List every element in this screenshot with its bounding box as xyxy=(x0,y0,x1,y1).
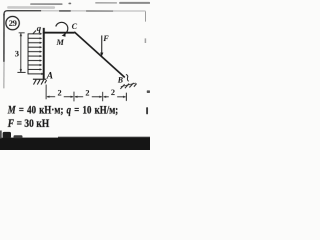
dimension line 3 (vertical) xyxy=(20,33,22,72)
dimension line segments 2-2-2 xyxy=(47,96,126,98)
svg-text:2: 2 xyxy=(111,88,115,97)
distributed load q envelope line xyxy=(27,33,29,74)
bottom scan band xyxy=(0,138,150,150)
frame top border with rounded corner xyxy=(7,6,55,9)
support A hatching xyxy=(33,80,46,85)
svg-text:F = 30 кН: F = 30 кН xyxy=(7,116,50,130)
support A ground line xyxy=(33,78,46,80)
scan streak top-right xyxy=(95,2,117,4)
svg-text:q: q xyxy=(37,23,42,33)
svg-text:A: A xyxy=(46,71,53,81)
scan dot top-middle xyxy=(68,3,71,5)
svg-text:2: 2 xyxy=(85,88,89,97)
svg-text:M = 40 кН·м; q = 10 кН/м;: M = 40 кН·м; q = 10 кН/м; xyxy=(7,102,118,116)
problem number circle 29 xyxy=(6,16,19,29)
distributed load arrows xyxy=(28,33,44,75)
svg-text:C: C xyxy=(72,22,78,31)
svg-text:3: 3 xyxy=(15,48,20,58)
extension tick at B xyxy=(125,93,127,101)
extension line below A xyxy=(45,85,47,100)
svg-text:B: B xyxy=(117,76,123,85)
frame left border xyxy=(3,14,5,62)
support B hatching xyxy=(120,83,136,89)
force F arrow xyxy=(101,35,103,53)
inclined member C to B xyxy=(74,32,125,78)
svg-text:2: 2 xyxy=(57,89,61,98)
scan streak top-left xyxy=(30,3,63,5)
svg-text:29: 29 xyxy=(9,18,17,28)
top horizontal member to C xyxy=(43,32,75,34)
scan mark right edge lower xyxy=(146,107,148,114)
svg-text:F: F xyxy=(102,34,109,43)
extension tick below C xyxy=(73,92,75,102)
q leader stroke xyxy=(33,30,36,34)
support B link squiggle xyxy=(126,74,129,81)
extension tick below F xyxy=(102,92,104,101)
moment M arc arrow xyxy=(56,22,68,34)
frame top-right corner stub xyxy=(144,11,146,21)
svg-text:M: M xyxy=(55,38,64,47)
support B ground line xyxy=(121,83,136,87)
scan mark right edge upper xyxy=(147,90,150,93)
column member A to top xyxy=(43,28,45,79)
